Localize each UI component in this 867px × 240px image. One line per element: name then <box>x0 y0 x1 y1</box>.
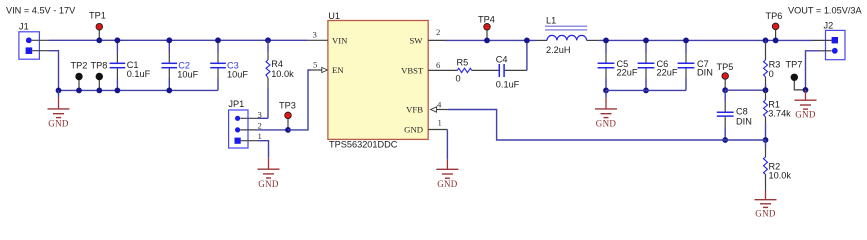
svg-text:1: 1 <box>438 118 442 128</box>
svg-text:J2: J2 <box>824 21 834 31</box>
svg-text:2: 2 <box>436 27 440 37</box>
svg-text:3: 3 <box>313 30 317 40</box>
testpoint TP6 <box>766 11 783 43</box>
svg-text:GND: GND <box>795 110 816 120</box>
capacitor C2 <box>162 37 199 93</box>
svg-text:C4: C4 <box>496 55 508 65</box>
svg-text:U1: U1 <box>328 11 340 21</box>
resistor R2 <box>764 140 792 190</box>
wire U1 GND pin down <box>446 130 448 160</box>
svg-text:VIN: VIN <box>332 35 348 45</box>
svg-text:TP1: TP1 <box>89 10 106 20</box>
wire TP3 node to EN pin <box>288 70 311 130</box>
wire VFB net <box>448 110 766 141</box>
wire U1 pin 3 VIN stub <box>308 39 328 41</box>
svg-text:R5: R5 <box>457 57 469 67</box>
testpoint TP8 <box>91 60 108 93</box>
svg-text:VOUT = 1.05V/3A: VOUT = 1.05V/3A <box>788 6 862 16</box>
capacitor C6 <box>638 38 678 94</box>
svg-text:C8: C8 <box>736 107 748 117</box>
wire JP1 pin2 to TP3 node <box>240 129 258 131</box>
wire U1 pin 6 VBST stub <box>428 69 457 71</box>
svg-text:10uF: 10uF <box>177 69 198 79</box>
svg-text:6: 6 <box>436 60 441 70</box>
svg-text:GND: GND <box>596 118 617 128</box>
svg-text:EN: EN <box>332 65 344 75</box>
ground GND left <box>48 90 70 128</box>
capacitor C8 <box>717 90 752 143</box>
svg-text:GND: GND <box>48 118 69 128</box>
svg-text:0.1uF: 0.1uF <box>127 69 151 79</box>
wire output cap ground rail <box>606 89 686 91</box>
testpoint TP7 <box>786 59 809 92</box>
connector J2 <box>824 21 846 60</box>
capacitor C7 <box>678 38 713 91</box>
resistor R4 <box>265 37 294 118</box>
svg-text:GND: GND <box>258 179 279 189</box>
svg-text:R4: R4 <box>271 59 283 69</box>
svg-text:22uF: 22uF <box>617 68 638 78</box>
wire VOUT rail to J2 pin1 <box>812 39 832 41</box>
resistor R3 <box>763 38 781 94</box>
svg-text:3.74k: 3.74k <box>768 109 791 119</box>
svg-text:JP1: JP1 <box>228 99 244 109</box>
wire TP5 node to R3/R1 node <box>725 89 765 91</box>
svg-text:TP2: TP2 <box>71 60 88 70</box>
wire J1 pin2 to ground rail <box>49 51 59 91</box>
svg-text:1: 1 <box>258 131 262 141</box>
connector J1 <box>19 22 49 60</box>
wire VOUT rail <box>599 39 812 41</box>
wire R4 to JP1 pin3 <box>258 117 268 119</box>
svg-text:5: 5 <box>313 60 317 70</box>
svg-text:J1: J1 <box>19 22 29 32</box>
capacitor C4 <box>496 55 520 90</box>
svg-text:GND: GND <box>437 179 458 189</box>
ground GND R2 <box>755 190 777 219</box>
svg-text:GND: GND <box>755 209 776 219</box>
testpoint TP4 <box>478 14 495 43</box>
svg-text:0: 0 <box>769 69 774 79</box>
testpoint TP5 <box>717 62 734 93</box>
ground GND U1 <box>436 160 458 189</box>
svg-text:4: 4 <box>437 99 442 109</box>
resistor R1 <box>763 90 792 143</box>
wire C4 to SW node <box>505 69 527 71</box>
svg-text:R3: R3 <box>769 59 781 69</box>
wire R5 to C4 <box>472 69 499 71</box>
wire VIN rail <box>49 39 308 41</box>
svg-text:TP7: TP7 <box>786 59 803 69</box>
capacitor C1 <box>110 37 151 93</box>
ground GND JP1 <box>258 158 280 189</box>
testpoint TP2 <box>71 60 88 93</box>
svg-text:22uF: 22uF <box>657 68 678 78</box>
svg-text:10uF: 10uF <box>227 69 248 79</box>
svg-text:TP5: TP5 <box>717 62 734 72</box>
svg-text:TP8: TP8 <box>91 60 108 70</box>
pin arrow VFB <box>431 107 437 112</box>
testpoint TP1 <box>89 10 106 43</box>
svg-text:TP6: TP6 <box>766 11 783 21</box>
resistor R5 <box>456 57 472 83</box>
svg-text:VIN = 4.5V - 17V: VIN = 4.5V - 17V <box>6 6 76 16</box>
wire J2 pin2 to gnd <box>820 50 832 52</box>
svg-text:TP3: TP3 <box>279 101 296 111</box>
node junction J1 gnd <box>56 88 62 94</box>
svg-text:L1: L1 <box>546 16 556 26</box>
wire U1 pin 2 SW stub <box>428 39 445 41</box>
svg-text:TPS563201DDC: TPS563201DDC <box>329 140 398 150</box>
ground GND J2 <box>795 90 817 120</box>
pin arrow EN <box>322 67 328 72</box>
wire U1 pin 1 GND stub <box>428 129 447 131</box>
testpoint TP3 <box>279 101 296 133</box>
svg-text:TP4: TP4 <box>478 14 495 24</box>
svg-text:VBST: VBST <box>401 65 424 75</box>
svg-text:DIN: DIN <box>697 68 713 78</box>
capacitor C5 <box>598 38 638 94</box>
svg-text:10.0k: 10.0k <box>769 171 792 181</box>
svg-text:SW: SW <box>409 35 423 45</box>
IC U1 TPS563201DDC <box>328 11 428 150</box>
svg-text:VFB: VFB <box>406 104 423 114</box>
inductor L1 <box>537 16 599 55</box>
svg-text:DIN: DIN <box>736 116 752 126</box>
svg-text:10.0k: 10.0k <box>271 69 294 79</box>
capacitor C3 <box>210 37 248 90</box>
svg-text:2.2uH: 2.2uH <box>546 45 571 55</box>
wire SW net <box>445 39 537 41</box>
svg-text:0: 0 <box>456 74 461 84</box>
svg-text:GND: GND <box>404 124 423 134</box>
wire JP1 pin1 to GND <box>241 140 258 142</box>
wire ground rail left <box>59 89 219 91</box>
connector JP1 <box>228 99 261 148</box>
svg-text:3: 3 <box>258 110 262 120</box>
svg-text:0.1uF: 0.1uF <box>496 79 520 89</box>
ground GND output caps <box>595 90 617 128</box>
